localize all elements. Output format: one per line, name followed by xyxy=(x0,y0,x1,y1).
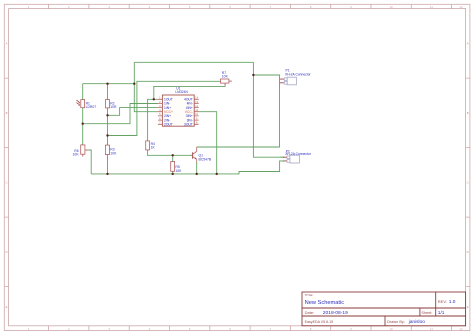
wire R1 bottom to R6 xyxy=(82,108,84,145)
wire top VCC rail xyxy=(134,61,253,63)
resistor R4 xyxy=(146,141,156,150)
top ticks xyxy=(49,4,452,8)
svg-text:11: 11 xyxy=(430,327,433,331)
left pin names xyxy=(164,98,173,127)
right ticks xyxy=(466,78,470,287)
wire R5 top tap xyxy=(172,155,174,161)
svg-text:Drawn By:: Drawn By: xyxy=(387,320,405,324)
junction P1 branch on VCC drop xyxy=(252,74,254,76)
junction node R2/R3 to 1IN+ xyxy=(106,114,108,116)
svg-text:10K: 10K xyxy=(110,151,117,155)
wire Q1 emitter down xyxy=(196,162,198,174)
svg-text:2OUT: 2OUT xyxy=(164,123,173,127)
svg-text:B: B xyxy=(6,111,8,115)
svg-text:XH-2A Connector: XH-2A Connector xyxy=(285,152,312,156)
wire VCC- to ground rail xyxy=(199,112,217,174)
junction 1OUT wiper node xyxy=(153,98,155,100)
svg-text:E: E xyxy=(6,305,8,309)
svg-text:14: 14 xyxy=(195,96,198,100)
svg-text:LDR07: LDR07 xyxy=(86,105,97,109)
wire rail1 R1/R2 tops xyxy=(83,83,135,85)
wire ground rail xyxy=(91,161,284,174)
svg-text:10: 10 xyxy=(390,327,394,331)
svg-text:REV:: REV: xyxy=(438,299,447,304)
wire R4 bottom to Q1 base xyxy=(148,150,192,155)
wire R2 top drop xyxy=(107,84,109,100)
svg-text:1/1: 1/1 xyxy=(438,310,445,316)
wire Q1 collector to P1 vertical xyxy=(197,75,280,147)
svg-text:D: D xyxy=(467,250,469,254)
svg-text:1.0: 1.0 xyxy=(449,299,456,305)
svg-text:EasyEDA V5.6.15: EasyEDA V5.6.15 xyxy=(305,320,334,324)
svg-text:BC547B: BC547B xyxy=(199,158,212,162)
svg-text:12: 12 xyxy=(459,5,463,9)
svg-text:E: E xyxy=(467,305,469,309)
wire R1 top drop xyxy=(82,84,84,100)
left pin stubs xyxy=(158,99,163,124)
svg-text:2018-08-19: 2018-08-19 xyxy=(323,310,348,316)
potentiometer R7 xyxy=(221,71,232,86)
svg-text:12: 12 xyxy=(195,104,198,108)
junction rail meets VCC vertical xyxy=(133,83,135,85)
svg-text:Date:: Date: xyxy=(305,310,315,315)
junction node R2/R3 to R7 xyxy=(106,134,108,136)
resistor R1 photoresistor LDR07 xyxy=(76,100,96,109)
wire node R2R3 to R7 left xyxy=(108,81,221,135)
wire V0 vcc vertical to VCC+ pin xyxy=(134,62,158,111)
svg-text:C: C xyxy=(467,181,469,185)
svg-text:janisloo: janisloo xyxy=(408,319,426,325)
svg-text:10R: 10R xyxy=(110,105,117,109)
svg-text:1K: 1K xyxy=(151,146,156,150)
resistor R3 xyxy=(105,145,117,155)
junction R5 bottom on ground rail xyxy=(172,173,174,175)
svg-text:3OUT: 3OUT xyxy=(184,123,193,127)
junction R2 top on rail xyxy=(106,83,108,85)
connector P1 XH-2A xyxy=(280,69,312,85)
svg-text:Sheet:: Sheet: xyxy=(421,311,432,315)
wire node R1 to 1IN- xyxy=(83,104,158,124)
left ticks xyxy=(4,78,8,287)
wire R2 bottom to R3 top xyxy=(107,108,109,145)
svg-text:TITLE:: TITLE: xyxy=(305,293,314,297)
svg-text:D: D xyxy=(5,250,7,254)
pin numbers xyxy=(159,96,198,125)
junction node R1/R6 tap xyxy=(82,123,84,125)
svg-text:10K: 10K xyxy=(222,75,229,79)
svg-text:New Schematic: New Schematic xyxy=(305,300,345,306)
title block xyxy=(302,292,466,326)
junction R5 top on base wire xyxy=(172,154,174,156)
svg-text:10: 10 xyxy=(195,112,198,116)
svg-text:LM324N: LM324N xyxy=(175,90,188,94)
wire 1OUT to R4 xyxy=(148,99,158,141)
wire node R2R3 to 1IN+ xyxy=(108,108,158,116)
right pin names xyxy=(184,98,193,127)
junction VCC- drop on ground rail xyxy=(216,173,218,175)
wire R5 bottom to rail xyxy=(172,171,174,174)
wire R3 bottom to rail xyxy=(107,155,109,174)
resistor R5 xyxy=(171,162,182,173)
svg-text:XH-2A Connector: XH-2A Connector xyxy=(285,73,312,77)
bottom ticks xyxy=(49,326,452,331)
junction Q1 emitter on ground rail xyxy=(196,173,198,175)
op-amp IC U1 LM324N xyxy=(158,87,199,127)
svg-text:13: 13 xyxy=(195,100,198,104)
svg-text:12: 12 xyxy=(459,327,463,331)
svg-text:10: 10 xyxy=(390,5,394,9)
wire R7 wiper to 1OUT node xyxy=(154,86,225,100)
connector P2 XH-2A xyxy=(280,149,311,163)
right pin stubs xyxy=(194,99,199,124)
svg-text:11: 11 xyxy=(430,5,433,9)
wire R6 wiper to rail xyxy=(88,150,91,174)
junction R3 bottom on ground rail xyxy=(106,173,108,175)
svg-text:B: B xyxy=(467,111,469,115)
transistor Q1 BC547B xyxy=(191,147,212,162)
wire top rail corner down to P2 pin1 xyxy=(253,62,284,157)
potentiometer R6 xyxy=(73,145,89,157)
resistor R2 xyxy=(106,100,117,109)
svg-text:A: A xyxy=(467,42,469,46)
svg-text:A: A xyxy=(6,42,8,46)
svg-text:10K: 10K xyxy=(175,169,182,173)
svg-text:C: C xyxy=(5,181,7,185)
svg-text:10K: 10K xyxy=(73,153,80,157)
